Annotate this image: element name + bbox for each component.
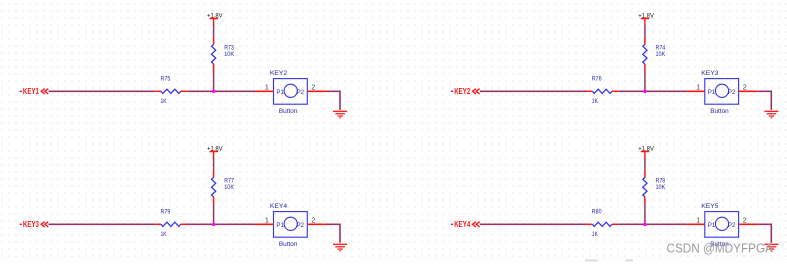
button component KEY3 (Button) U-box xyxy=(701,70,738,115)
svg-text:R80: R80 xyxy=(592,208,602,215)
svg-text:Button: Button xyxy=(710,108,729,115)
button component KEY4 (Button) U-box xyxy=(270,203,307,248)
wire pin 2 of KEY2 to ground xyxy=(327,91,340,110)
svg-text:KEY5: KEY5 xyxy=(701,203,719,210)
power port +1.8V (bar) xyxy=(207,13,223,26)
wire R76 to pin 1 of KEY3 xyxy=(619,90,687,92)
svg-text:P1: P1 xyxy=(708,222,716,229)
pin 2 of KEY2 xyxy=(307,85,327,92)
svg-text:Button: Button xyxy=(279,108,298,115)
svg-text:R75: R75 xyxy=(161,75,171,82)
svg-text:KEY4: KEY4 xyxy=(270,203,288,210)
wire +1.8V to R73 xyxy=(213,25,215,38)
pin 1 of KEY5 xyxy=(686,218,705,225)
svg-text:R76: R76 xyxy=(592,75,602,82)
resistor R78 10K (vertical pull-up) xyxy=(643,171,666,204)
svg-text:1: 1 xyxy=(265,218,269,225)
svg-text:KEY3: KEY3 xyxy=(23,219,39,229)
svg-text:P1: P1 xyxy=(276,89,284,96)
svg-text:1K: 1K xyxy=(592,231,599,238)
svg-text:Button: Button xyxy=(279,241,298,248)
button component KEY2 (Button) U-box xyxy=(270,70,307,115)
resistor R73 10K (vertical pull-up) xyxy=(212,38,235,71)
power port +1.8V (bar) xyxy=(207,146,223,159)
pin 1 of KEY4 xyxy=(255,218,274,225)
resistor R74 10K (vertical pull-up) xyxy=(643,38,666,71)
resistor R75 1K (horizontal) xyxy=(155,75,188,105)
svg-text:KEY4: KEY4 xyxy=(454,219,470,229)
svg-text:P2: P2 xyxy=(728,89,736,96)
junction node at R76/R74/KEY3 xyxy=(643,90,646,93)
svg-text:P2: P2 xyxy=(297,222,305,229)
svg-text:1: 1 xyxy=(265,85,269,92)
svg-text:CSDN @MDYFPGA: CSDN @MDYFPGA xyxy=(667,240,774,255)
wire +1.8V to R77 xyxy=(213,158,215,171)
resistor R79 1K (horizontal) xyxy=(155,208,188,238)
svg-text:10K: 10K xyxy=(224,184,234,191)
wire R80 to pin 1 of KEY5 xyxy=(619,223,687,225)
wire R74 to junction xyxy=(644,71,646,91)
svg-text:KEY3: KEY3 xyxy=(701,70,719,77)
svg-text:1: 1 xyxy=(696,218,700,225)
wire +1.8V to R74 xyxy=(644,25,646,38)
svg-text:1K: 1K xyxy=(161,98,168,105)
svg-text:10K: 10K xyxy=(656,184,666,191)
pin 2 of KEY5 xyxy=(739,218,759,225)
net label KEY3 (input port) xyxy=(20,219,49,229)
svg-text:P1: P1 xyxy=(276,222,284,229)
wire R79 to pin 1 of KEY4 xyxy=(187,223,255,225)
svg-text:P1: P1 xyxy=(708,89,716,96)
svg-text:KEY2: KEY2 xyxy=(270,70,288,77)
wire R78 to junction xyxy=(644,204,646,224)
ground (GND earth symbol) xyxy=(333,111,347,118)
wire R73 to junction xyxy=(213,71,215,91)
svg-text:P2: P2 xyxy=(297,89,305,96)
wire KEY3 to R79 xyxy=(49,223,155,225)
wire pin 2 of KEY4 to ground xyxy=(327,224,340,243)
svg-text:1K: 1K xyxy=(592,98,599,105)
watermark fragment (clipped second line) xyxy=(585,259,633,261)
svg-text:1K: 1K xyxy=(161,231,168,238)
pin 1 of KEY3 xyxy=(686,85,705,92)
svg-text:2: 2 xyxy=(743,85,747,92)
ground (GND earth symbol) xyxy=(333,244,347,251)
pin 2 of KEY3 xyxy=(739,85,759,92)
net label KEY1 (input port) xyxy=(20,86,49,96)
svg-text:2: 2 xyxy=(311,218,315,225)
power port +1.8V (bar) xyxy=(638,13,654,26)
wire KEY1 to R75 xyxy=(49,90,155,92)
junction node at R79/R77/KEY4 xyxy=(212,223,215,226)
svg-text:2: 2 xyxy=(743,218,747,225)
junction node at R80/R78/KEY5 xyxy=(643,223,646,226)
wire KEY2 to R76 xyxy=(480,90,586,92)
wire +1.8V to R78 xyxy=(644,158,646,171)
svg-text:KEY2: KEY2 xyxy=(454,86,470,96)
junction node at R75/R73/KEY2 xyxy=(212,90,215,93)
button component KEY5 (Button) U-box xyxy=(701,203,738,248)
wire pin 2 of KEY3 to ground xyxy=(758,91,771,110)
ground (GND earth symbol) xyxy=(764,244,778,251)
resistor R76 1K (horizontal) xyxy=(586,75,619,105)
power port +1.8V (bar) xyxy=(638,146,654,159)
resistor R80 1K (horizontal) xyxy=(586,208,619,238)
net label KEY2 (input port) xyxy=(451,86,480,96)
svg-text:1: 1 xyxy=(696,85,700,92)
svg-text:KEY1: KEY1 xyxy=(23,86,39,96)
wire KEY4 to R80 xyxy=(480,223,586,225)
net label KEY4 (input port) xyxy=(451,219,480,229)
wire R75 to pin 1 of KEY2 xyxy=(187,90,255,92)
svg-text:2: 2 xyxy=(311,85,315,92)
pin 2 of KEY4 xyxy=(307,218,327,225)
resistor R77 10K (vertical pull-up) xyxy=(212,171,235,204)
pin 1 of KEY2 xyxy=(255,85,274,92)
svg-text:R79: R79 xyxy=(161,208,171,215)
ground (GND earth symbol) xyxy=(764,111,778,118)
svg-text:10K: 10K xyxy=(656,51,666,58)
svg-text:P2: P2 xyxy=(728,222,736,229)
svg-text:10K: 10K xyxy=(224,51,234,58)
wire pin 2 of KEY5 to ground xyxy=(758,224,771,243)
wire R77 to junction xyxy=(213,204,215,224)
